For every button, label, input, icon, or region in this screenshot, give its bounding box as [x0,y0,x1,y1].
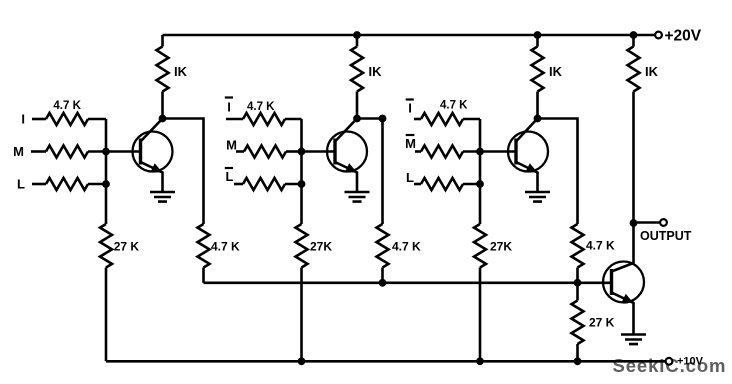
input M2 wire [236,150,244,153]
wire R9 to bus [463,183,480,186]
ground Q1 [150,192,175,202]
resistor R1 4.7K [46,113,88,125]
label R13 1K [645,64,659,79]
wire R7 to bus [463,118,480,121]
input Ibar wire [226,118,243,121]
node M junction stage2 [298,148,306,156]
node L junction stage3 [476,180,484,188]
label L [17,177,25,192]
input Lbar wire [234,183,243,186]
watermark [613,355,727,376]
node Q4 base [574,279,582,287]
node L junction stage1 [102,180,110,188]
stage2 input bus wire [300,119,303,224]
node R13 top rail [630,31,638,39]
node R18 bottom rail [476,357,484,365]
wire R4 to bus [285,118,302,121]
svg-text:L: L [406,170,414,185]
label R20 27K [589,316,615,330]
+10V terminal [666,358,673,365]
svg-text:4.7 K: 4.7 K [247,101,275,113]
resistor R17 4.7K [377,224,389,268]
label R7 4.7K [440,100,468,112]
resistor R18 27K [474,224,486,268]
node M junction stage1 [102,148,110,156]
resistor R19 4.7K [572,224,584,268]
label R12 1K [549,64,563,79]
label R10 1K [174,64,188,79]
svg-text:4.7 K: 4.7 K [392,240,421,254]
resistor R12 1K [532,35,544,119]
label R11 1K [369,64,383,79]
node OUTPUT junction [630,219,638,227]
svg-text:M: M [405,136,416,151]
wire R2 to bus [88,150,106,153]
wire R15 to base line [202,268,205,283]
svg-text:4.7 K: 4.7 K [586,239,615,253]
label R19 4.7K [586,239,615,253]
label R1 4.7K [53,100,81,112]
base wire Q3 [480,150,517,153]
svg-text:IK: IK [549,64,563,79]
input M wire [31,150,46,153]
resistor R5 [244,146,286,158]
resistor R6 [243,178,285,190]
base wire Q2 [302,150,337,153]
label M2 [226,138,237,153]
svg-text:M: M [13,144,24,159]
resistor R4 4.7K [243,113,285,125]
wire Q1 collector to R15 [163,119,204,225]
resistor R14 27K [100,224,112,268]
wire R6 to bus [285,183,302,186]
input Ibar3 wire [414,118,421,121]
label Mbar [405,135,416,151]
wire R3 to bus [88,183,106,186]
transistor Q1 [133,119,173,193]
node Q2 collector [353,115,361,123]
resistor R9 [421,178,463,190]
OUTPUT terminal [660,219,667,226]
svg-text:OUTPUT: OUTPUT [640,229,692,243]
node corner stage2 collector [379,115,387,123]
ground Q3 [525,192,550,202]
input Mbar wire [415,150,421,153]
label I [21,112,25,127]
svg-text:IK: IK [645,64,659,79]
wire Q2 collector to R17 [357,119,383,225]
node R17 base line [379,279,387,287]
+20V terminal [655,32,662,39]
base wire Q1 [106,150,142,153]
label Ibar [225,98,233,115]
resistor R8 [421,146,463,158]
label R17 4.7K [392,240,421,254]
stage3 input bus wire [479,119,482,224]
input L3 wire [414,183,421,186]
svg-text:27K: 27K [310,240,332,254]
svg-text:27K: 27K [490,240,512,254]
resistor R3 [46,178,88,190]
label R18 27K [490,240,512,254]
ground Q2 [345,192,370,202]
node L junction stage2 [298,180,306,188]
svg-text:27 K: 27 K [114,240,140,254]
node R16 bottom rail [298,357,306,365]
label +10V [677,356,704,368]
wire R14 to bottom rail [105,268,108,362]
node R12 top rail [534,31,542,39]
node Q1 collector [159,115,167,123]
wire R16 to bottom rail [300,268,303,362]
svg-text:27 K: 27 K [589,316,615,330]
svg-text:+10V: +10V [677,356,704,368]
label Ibar3 [406,100,414,116]
svg-text:I: I [408,101,412,116]
wire to OUTPUT terminal [634,221,660,224]
node M junction stage3 [476,148,484,156]
transistor Q2 [327,119,367,193]
resistor R2 [46,146,88,158]
svg-text:L: L [17,177,25,192]
label R14 27K [114,240,140,254]
resistor R16 27K [296,224,308,268]
resistor R20 27K [572,301,584,345]
label R15 4.7K [211,240,240,254]
node Q3 collector [534,115,542,123]
label OUTPUT [640,229,692,243]
svg-text:IK: IK [174,64,188,79]
svg-text:+20V: +20V [665,28,702,45]
+10V bottom rail [106,360,665,363]
resistor R11 1K [351,35,363,119]
transistor Q4 [603,223,644,334]
wire R8 to bus [463,150,480,153]
label +20V [665,28,702,45]
stage1 input bus wire [105,119,108,224]
wire R17 to base line [381,268,384,283]
+20V supply rail [163,34,655,37]
input I wire [32,118,46,121]
transistor Q3 [508,119,548,193]
wire R1 to bus [88,118,106,121]
svg-text:4.7 K: 4.7 K [440,100,468,112]
label R16 27K [310,240,332,254]
label M [13,144,24,159]
node R20 bottom rail [574,357,582,365]
wire R19 to base node [576,268,579,301]
svg-text:4.7 K: 4.7 K [211,240,240,254]
resistor R10 1K [157,35,169,119]
wire R5 to bus [286,150,302,153]
svg-text:IK: IK [369,64,383,79]
input L wire [32,183,46,186]
svg-text:I: I [227,100,231,115]
base line wire [204,281,613,284]
label R4 4.7K [247,101,275,113]
svg-text:M: M [226,138,237,153]
label Lbar [225,168,234,184]
resistor R15 4.7K [198,224,210,268]
resistor R7 4.7K [421,113,463,125]
ground Q4 [621,335,646,345]
svg-text:4.7 K: 4.7 K [53,100,81,112]
wire R20 to bottom rail [576,344,579,361]
wire R18 to bottom rail [479,268,482,362]
label L3 [406,170,414,185]
svg-text:I: I [21,112,25,127]
node R11 top rail [353,31,361,39]
resistor R13 1K [628,35,640,223]
svg-text:L: L [226,169,234,184]
wire Q3 collector to R19 [538,119,578,225]
